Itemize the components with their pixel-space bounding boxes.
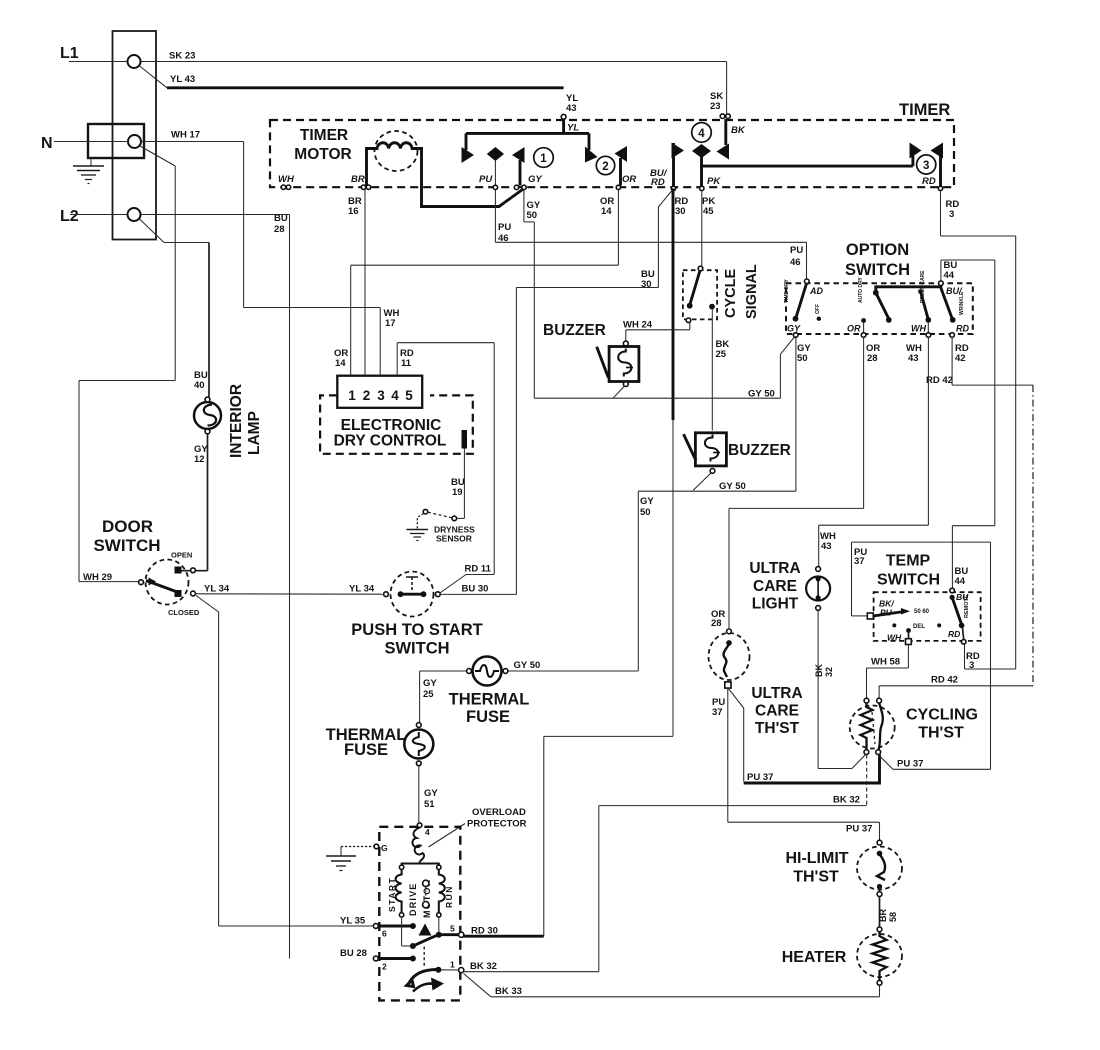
timer terminal RD / label RD 3	[922, 176, 959, 220]
svg-text:RD: RD	[922, 176, 936, 187]
motor windings (start/run)	[396, 862, 445, 918]
svg-text:43: 43	[821, 541, 832, 552]
timer terminal WH	[278, 174, 295, 189]
svg-text:WH 58: WH 58	[871, 657, 900, 668]
svg-text:50: 50	[527, 210, 538, 221]
wire RD 42 stub (cycling th'st switch top)	[878, 686, 880, 698]
svg-text:WH: WH	[278, 174, 295, 185]
svg-text:CARE: CARE	[755, 703, 799, 720]
svg-text:TIME DRY: TIME DRY	[784, 279, 790, 303]
label TEMP SWITCH	[877, 553, 940, 589]
motor terminal 5 (RD 30)	[436, 917, 498, 938]
svg-text:YL 34: YL 34	[204, 584, 230, 595]
terminal block (mains strip)	[113, 31, 157, 240]
motor terminal 2 (BU 28)	[340, 948, 416, 972]
svg-text:CYCLE: CYCLE	[723, 269, 739, 318]
svg-text:OPTION: OPTION	[846, 241, 909, 259]
svg-text:DOOR: DOOR	[102, 517, 153, 536]
svg-text:4: 4	[425, 827, 430, 837]
svg-text:2: 2	[602, 161, 608, 173]
label PU 37 at temp switch corner	[854, 547, 867, 567]
svg-text:ULTRA: ULTRA	[751, 685, 802, 702]
svg-text:PUSH TO START: PUSH TO START	[351, 621, 482, 639]
wire WH 29 (N to door switch)	[79, 166, 175, 583]
svg-text:L2: L2	[60, 208, 79, 225]
wire YL 43 entry into timer	[466, 93, 589, 134]
timer contact 1 group	[462, 133, 554, 185]
timer motor M1 (dashed circle + coil)	[367, 131, 524, 207]
label OVERLOAD PROTECTOR	[429, 807, 527, 847]
svg-text:PROTECTOR: PROTECTOR	[467, 819, 527, 830]
svg-text:58: 58	[888, 912, 898, 922]
svg-text:SK 23: SK 23	[169, 51, 195, 62]
overload protector OL1	[412, 823, 430, 862]
svg-text:YL 34: YL 34	[349, 584, 375, 595]
wire YL 34 (door switch to push-to-start)	[196, 584, 387, 595]
wire PU 37 (ultra care th'st to cycling th'st)	[728, 688, 880, 783]
svg-text:14: 14	[601, 206, 612, 217]
svg-text:5: 5	[405, 388, 413, 403]
label ULTRA CARE TH'ST	[751, 685, 802, 737]
timer terminal BR / label BR 16	[348, 174, 371, 217]
svg-text:50 60: 50 60	[914, 609, 930, 615]
svg-text:2: 2	[363, 388, 371, 403]
heater HTR1	[857, 927, 902, 985]
svg-text:REMOTE: REMOTE	[964, 594, 970, 618]
svg-text:RD 30: RD 30	[471, 926, 498, 937]
temp switch BK/PU contact	[867, 599, 941, 631]
svg-text:HEATER: HEATER	[782, 949, 847, 966]
svg-text:AUTO DRY: AUTO DRY	[858, 277, 864, 304]
svg-text:HI-LIMIT: HI-LIMIT	[785, 850, 848, 867]
motor centrifugal switch (start)	[402, 917, 439, 949]
wire BU 44 (option to temp switch)	[941, 260, 995, 589]
ground (dryness sensor)	[407, 530, 429, 541]
node L2 label	[60, 208, 79, 225]
interior lamp DS1	[194, 370, 221, 465]
wire RD 11 (EDC pin4 to push-to-start)	[397, 343, 494, 594]
label PU 37 at ultra care th'st	[712, 697, 725, 718]
svg-text:RD: RD	[956, 324, 969, 334]
timer contact 3 group	[910, 143, 944, 188]
timer terminal PK / label PK 45	[700, 176, 722, 217]
svg-text:3: 3	[969, 660, 974, 671]
svg-text:ELECTRONIC: ELECTRONIC	[341, 417, 442, 434]
motor ground	[326, 843, 388, 871]
terminal L1	[128, 55, 141, 68]
wire GY 50 (option GY drop)	[795, 337, 797, 492]
svg-text:BK: BK	[814, 664, 824, 677]
svg-text:DEL: DEL	[913, 624, 925, 630]
svg-text:3: 3	[949, 209, 954, 220]
svg-text:SIGNAL: SIGNAL	[744, 264, 760, 319]
wire PU 37 (cycling th'st to temp switch BK/PU)	[852, 542, 991, 769]
terminal N	[128, 135, 141, 148]
svg-text:PRESS CARE: PRESS CARE	[920, 270, 926, 303]
svg-text:LAMP: LAMP	[246, 411, 263, 455]
wire GY 50 bus (timer GY to option switch / buzzer1)	[534, 336, 795, 400]
motor terminal 1 (BK 32)	[450, 960, 464, 973]
svg-text:BR: BR	[351, 174, 365, 185]
svg-text:THERMAL: THERMAL	[449, 691, 530, 709]
wire N	[54, 141, 128, 143]
temp switch BU/RD blade	[948, 588, 970, 644]
wire PK 45 (timer PK to cycle signal)	[701, 191, 703, 267]
svg-text:TH'ST: TH'ST	[793, 869, 839, 886]
svg-text:40: 40	[194, 380, 205, 391]
svg-text:YL 43: YL 43	[170, 74, 195, 85]
EDC internal bar (pin5)	[462, 430, 468, 449]
svg-text:PU: PU	[479, 174, 493, 185]
cycle signal lamp DS2 (dashed box)	[683, 266, 717, 322]
wire GY 50 (timer GY down to bus)	[524, 190, 541, 399]
wire YL 35 (door switch to motor terminal 6)	[196, 596, 376, 927]
terminal L2	[128, 208, 141, 221]
svg-text:PU 37: PU 37	[897, 759, 923, 770]
svg-text:46: 46	[498, 233, 509, 244]
svg-text:28: 28	[274, 224, 285, 235]
wire RD 30 (timer BU/RD down to motor terminal 5)	[461, 188, 673, 936]
svg-text:GY 50: GY 50	[719, 481, 746, 492]
label BUZZER (1)	[543, 322, 606, 339]
wire WH 58 (temp switch to cycling th'st)	[867, 645, 909, 699]
wire BU 30 (timer BU/RD to push-to-start)	[516, 191, 672, 595]
svg-text:YL: YL	[567, 123, 579, 134]
svg-text:50: 50	[640, 507, 651, 518]
wire GY 50 (buzzer1 to bus)	[613, 386, 625, 398]
label BU 44 (top)	[944, 260, 958, 281]
svg-text:RD 42: RD 42	[931, 675, 958, 686]
svg-text:2: 2	[382, 962, 387, 972]
svg-text:PU 37: PU 37	[846, 824, 872, 835]
svg-text:FUSE: FUSE	[344, 741, 388, 759]
svg-text:GY: GY	[424, 788, 438, 799]
svg-text:51: 51	[424, 799, 435, 810]
wire PU 37 (ultra care th'st to hi-limit)	[728, 688, 880, 840]
node L1 label	[60, 45, 79, 62]
svg-text:44: 44	[944, 270, 955, 281]
wire BR 58 (hi-limit to heater)	[878, 897, 898, 928]
temp switch WH contact	[887, 628, 911, 644]
motor terminal 6 (YL 35)	[373, 923, 416, 939]
svg-text:BU 30: BU 30	[462, 584, 489, 595]
svg-text:FUSE: FUSE	[466, 708, 510, 726]
svg-text:30: 30	[675, 206, 686, 217]
timer terminal OR / label OR 14	[600, 174, 636, 217]
wire OR 14 (timer OR to EDC pin1)	[334, 190, 618, 376]
svg-text:CLOSED: CLOSED	[168, 608, 200, 617]
label DOOR SWITCH	[93, 517, 160, 555]
drive motor dashed box	[379, 827, 460, 1001]
svg-text:1: 1	[348, 388, 356, 403]
svg-text:OVERLOAD: OVERLOAD	[472, 807, 526, 818]
door switch S1	[139, 551, 200, 618]
buzzer B2	[684, 433, 727, 474]
svg-text:44: 44	[955, 576, 966, 587]
dryness sensor	[417, 509, 475, 543]
svg-text:14: 14	[335, 358, 346, 369]
svg-text:DRIVE: DRIVE	[408, 882, 418, 916]
svg-text:3: 3	[923, 160, 929, 172]
option switch common bar (BU 44)	[873, 281, 963, 296]
label THERMAL FUSE (left)	[326, 726, 407, 759]
svg-text:GY: GY	[528, 174, 543, 185]
label BUZZER (2)	[728, 442, 791, 459]
hi-limit th'st S7	[857, 840, 902, 896]
wire BU 19 (EDC pin5 to dryness sensor)	[451, 449, 465, 519]
svg-text:45: 45	[703, 206, 714, 217]
svg-text:BK 32: BK 32	[833, 795, 860, 806]
svg-text:OFF: OFF	[815, 304, 821, 314]
svg-text:GY: GY	[787, 324, 801, 334]
svg-text:ULTRA: ULTRA	[749, 560, 800, 577]
svg-text:PU: PU	[880, 608, 893, 618]
option switch position 2 (OR)	[847, 277, 892, 338]
label BU 44 at temp switch	[955, 566, 969, 587]
svg-text:3: 3	[377, 388, 385, 403]
svg-text:WH: WH	[887, 633, 902, 643]
wire GY 51 (thermal fuse to motor overload)	[419, 766, 439, 823]
svg-text:PK: PK	[707, 176, 721, 187]
svg-text:1: 1	[450, 960, 455, 970]
wire BK 33 (heater bottom / motor)	[464, 974, 880, 998]
wire WH 43 (option to ultra care light)	[819, 337, 929, 567]
svg-text:TH'ST: TH'ST	[755, 720, 800, 737]
ultra care light DS3	[806, 567, 830, 611]
option switch position 1 (GY)	[784, 279, 823, 338]
label TIMER MOTOR	[294, 127, 351, 163]
label CYCLE SIGNAL (vertical)	[723, 264, 760, 319]
svg-text:MOTOR: MOTOR	[294, 146, 351, 163]
svg-text:BK 33: BK 33	[495, 986, 522, 997]
svg-text:25: 25	[716, 349, 727, 360]
svg-text:INTERIOR: INTERIOR	[228, 384, 245, 458]
svg-text:4: 4	[698, 128, 705, 140]
svg-text:GY: GY	[423, 678, 437, 689]
label ULTRA CARE LIGHT	[749, 560, 800, 613]
svg-text:SWITCH: SWITCH	[845, 261, 910, 279]
svg-text:WH 17: WH 17	[171, 130, 200, 141]
svg-text:GY: GY	[640, 496, 654, 507]
cycling th'st S6	[850, 698, 895, 754]
wire BU 40 branch (L2 to interior lamp)	[139, 219, 209, 398]
wire BU 30 label at push-to-start	[440, 584, 516, 595]
svg-text:GY 50: GY 50	[514, 660, 541, 671]
svg-text:TH'ST: TH'ST	[918, 725, 964, 742]
svg-text:23: 23	[710, 101, 721, 112]
wire GY 12 (lamp to door switch OPEN)	[181, 434, 208, 571]
buzzer B1	[597, 341, 639, 386]
ultra care th'st S5	[709, 629, 750, 688]
timer dashed box	[270, 120, 954, 187]
svg-text:TEMP: TEMP	[886, 553, 931, 570]
electronic dry control dashed box	[320, 395, 473, 453]
svg-text:42: 42	[955, 353, 966, 364]
svg-text:TIMER: TIMER	[300, 127, 348, 144]
svg-text:BU 28: BU 28	[340, 948, 367, 959]
svg-text:46: 46	[790, 257, 801, 268]
svg-text:LIGHT: LIGHT	[752, 596, 799, 613]
ground (below N box)	[73, 158, 104, 184]
label INTERIOR LAMP (vertical)	[228, 384, 263, 458]
svg-text:AD: AD	[809, 286, 823, 296]
svg-text:WH 29: WH 29	[83, 572, 112, 583]
wire L2 / BU 28	[70, 213, 290, 235]
svg-text:BR: BR	[878, 909, 888, 922]
svg-text:19: 19	[452, 487, 463, 498]
timer terminal GY	[514, 174, 543, 190]
svg-text:N: N	[41, 135, 53, 152]
svg-text:SWITCH: SWITCH	[93, 536, 160, 555]
timer terminal PU	[479, 174, 498, 190]
svg-text:PU: PU	[498, 222, 511, 233]
svg-text:L1: L1	[60, 45, 79, 62]
svg-text:30: 30	[641, 279, 652, 290]
thermal fuse F1 (vertical)	[404, 723, 433, 766]
label START / DRIVE MOTOR / RUN (vertical)	[387, 877, 454, 918]
svg-text:OPEN: OPEN	[171, 551, 192, 560]
svg-text:37: 37	[854, 556, 865, 567]
svg-text:BUZZER: BUZZER	[728, 442, 791, 459]
timer terminal BU/RD / label RD 30	[650, 168, 688, 217]
svg-text:DRY CONTROL: DRY CONTROL	[334, 433, 447, 450]
option switch position 4 (RD)	[941, 288, 970, 337]
svg-text:28: 28	[711, 618, 722, 629]
wire BU 28 vertical (L2 to motor terminal 2)	[289, 215, 291, 959]
svg-text:11: 11	[401, 358, 412, 369]
thermal fuse F2 (horizontal)	[449, 657, 530, 727]
svg-text:1: 1	[540, 153, 547, 165]
svg-text:37: 37	[712, 707, 723, 718]
label TIMER	[899, 101, 950, 119]
svg-text:SWITCH: SWITCH	[877, 572, 940, 589]
label PU 46 at option switch	[790, 245, 803, 268]
option switch dashed box	[786, 283, 973, 334]
svg-text:RD: RD	[948, 629, 960, 639]
svg-text:RD 11: RD 11	[465, 564, 492, 575]
svg-text:CYCLING: CYCLING	[906, 707, 978, 724]
svg-text:WH: WH	[911, 324, 926, 334]
svg-text:RD 42: RD 42	[926, 375, 953, 386]
svg-text:BK: BK	[731, 125, 746, 136]
motor lower switch blade	[407, 947, 460, 992]
push to start switch S2	[384, 572, 441, 617]
N terminal box	[88, 124, 144, 158]
svg-text:PU 37: PU 37	[747, 772, 773, 783]
timer terminal SK / label SK 23	[710, 62, 746, 137]
svg-text:OR: OR	[622, 174, 636, 185]
wire WH 17 (N to EDC pin3)	[140, 130, 399, 376]
svg-text:17: 17	[385, 318, 396, 329]
svg-text:TIMER: TIMER	[899, 101, 950, 119]
wire GY 25 (bus to thermal fuse)	[420, 671, 466, 723]
svg-text:43: 43	[566, 103, 577, 114]
svg-text:BUZZER: BUZZER	[543, 322, 606, 339]
svg-text:50: 50	[797, 353, 808, 364]
svg-text:43: 43	[908, 353, 919, 364]
wire RD 3 (timer RD to temp switch)	[941, 191, 1016, 670]
svg-text:5: 5	[450, 924, 455, 934]
wire WH 24 (buzzer1 to cycle signal)	[623, 320, 690, 342]
svg-text:25: 25	[423, 689, 434, 700]
wire YL 43 from L1	[139, 66, 564, 88]
wire RD 42 (option to cycling th'st)	[879, 337, 1033, 686]
electronic dry control connector box U1	[337, 376, 422, 408]
svg-text:WRINKLE: WRINKLE	[959, 291, 965, 315]
svg-text:12: 12	[194, 454, 205, 465]
label OPTION SWITCH	[845, 241, 910, 279]
timer contact 4 group	[672, 119, 913, 188]
option switch position 3 (WH)	[911, 270, 931, 337]
svg-text:GY 50: GY 50	[748, 389, 775, 400]
svg-text:BK 32: BK 32	[470, 961, 497, 972]
svg-text:G: G	[381, 843, 388, 853]
wire L1 / SK 23	[69, 51, 727, 62]
node N label	[41, 135, 53, 152]
wire PU 46 (timer PU to option switch)	[495, 190, 806, 280]
wire BK 25 (cycle signal to buzzer2)	[712, 319, 729, 431]
svg-text:WH 24: WH 24	[623, 320, 653, 331]
svg-text:28: 28	[867, 353, 878, 364]
label CYCLING TH'ST	[906, 707, 978, 742]
option switch bottom labels	[797, 343, 969, 364]
svg-text:RD: RD	[651, 177, 665, 188]
temp switch S4 (dashed box)	[874, 592, 981, 641]
wire BK 32 (cycling th'st coil to motor)	[464, 755, 867, 973]
svg-text:YL 35: YL 35	[340, 916, 366, 927]
label RD 3 at temp switch	[966, 651, 980, 671]
svg-text:16: 16	[348, 206, 359, 217]
svg-text:CARE: CARE	[753, 578, 797, 595]
wire BR 16 (timer to EDC pin2)	[364, 190, 366, 376]
label PUSH TO START SWITCH	[351, 621, 482, 658]
wire OR 28 (option to ultra care th'st)	[711, 337, 864, 630]
wire GY 50 (thermal fuse to buzzer drop)	[508, 660, 638, 671]
svg-text:6: 6	[382, 929, 387, 939]
timer contact 2 group	[585, 133, 627, 185]
svg-text:PU: PU	[790, 245, 803, 256]
svg-text:OR: OR	[847, 324, 861, 334]
label HEATER	[782, 949, 847, 966]
wire GY 50 (buzzer2 to thermal fuse drop)	[638, 473, 796, 671]
wire BK 32 (light to cycling th'st coil)	[814, 610, 866, 768]
svg-text:BU: BU	[274, 213, 288, 224]
svg-text:SWITCH: SWITCH	[384, 640, 449, 658]
label HI-LIMIT TH'ST	[785, 850, 848, 886]
svg-text:4: 4	[391, 388, 399, 403]
svg-text:SENSOR: SENSOR	[436, 534, 472, 544]
svg-text:32: 32	[824, 667, 834, 677]
